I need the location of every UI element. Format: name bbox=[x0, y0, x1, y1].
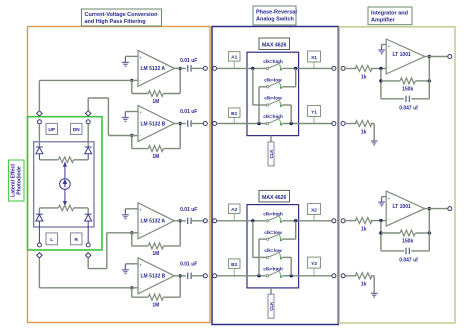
wire feedback to U4 output bbox=[163, 296, 180, 298]
resistor 1M (feedback of U1) bbox=[148, 91, 163, 97]
resistor 1M (feedback of U2) bbox=[148, 146, 163, 152]
op-amp U4 LM 5132 B bbox=[138, 258, 174, 294]
wire U1 feedback down bbox=[131, 80, 133, 93]
label box L bbox=[46, 233, 58, 245]
resistor 150k (feedback of U6) bbox=[400, 230, 415, 236]
svg-text:MAX 4626: MAX 4626 bbox=[262, 43, 287, 49]
node X output junction (upper) bbox=[294, 67, 297, 70]
svg-text:clk=high: clk=high bbox=[263, 59, 283, 65]
wire DN terminal to right diode bbox=[87, 124, 89, 147]
svg-text:clk=high: clk=high bbox=[263, 212, 283, 218]
svg-text:clk=low: clk=low bbox=[264, 230, 282, 236]
svg-text:0.01 uF: 0.01 uF bbox=[180, 109, 197, 115]
wiper arrow down bbox=[64, 189, 67, 205]
terminal circle UP (top-left) bbox=[37, 120, 41, 124]
photodiode D2 (right) bbox=[85, 147, 92, 160]
off-page terminal (right of boundary) bbox=[213, 219, 217, 223]
svg-text:0.01 uF: 0.01 uF bbox=[180, 261, 197, 267]
wire S2 output to X rail (upper) bbox=[282, 86, 296, 88]
svg-text:CLK: CLK bbox=[269, 149, 274, 159]
off-page terminal (right of navy/olive boundary) bbox=[341, 219, 345, 223]
wire + input to ground (U6) bbox=[382, 196, 387, 198]
wire U4 feedback down bbox=[131, 288, 133, 297]
svg-text:clk=low: clk=low bbox=[264, 248, 282, 254]
switch S2 clk=low (lower) bbox=[264, 230, 282, 241]
op-amp U3 LM 5132 A bbox=[138, 203, 174, 239]
wire output vertical (U5) bbox=[428, 57, 430, 99]
wiper arrow up bbox=[64, 163, 67, 179]
svg-text:+: + bbox=[388, 196, 391, 201]
switch S3 clk=low (upper) bbox=[264, 96, 282, 107]
wire U3 + input to ground bbox=[125, 208, 138, 210]
svg-text:DN: DN bbox=[73, 127, 80, 133]
connector diamond to R bbox=[86, 253, 91, 258]
node Y output junction (upper) bbox=[290, 122, 293, 125]
wire CLK stub (upper) bbox=[270, 136, 272, 142]
capacitor 0.01 uF (row 2) bbox=[187, 120, 189, 126]
node feedback right junction (U6) bbox=[428, 231, 431, 234]
svg-text:Current-Voltage Conversion: Current-Voltage Conversion bbox=[85, 12, 159, 18]
label box Y1 bbox=[308, 106, 321, 124]
photodiode model outline bbox=[34, 142, 94, 227]
svg-text:0.01 uF: 0.01 uF bbox=[180, 207, 197, 213]
terminal circle R (bottom-right) bbox=[86, 243, 90, 247]
node A input junction (upper) bbox=[251, 67, 254, 70]
svg-text:UP: UP bbox=[48, 127, 55, 133]
wire 1k to inverting input (U5) bbox=[371, 68, 386, 70]
wire input rail A (lower) bbox=[217, 220, 267, 222]
ground at U3 + input bbox=[122, 209, 129, 219]
svg-text:1k: 1k bbox=[361, 129, 367, 135]
wire B to S2 (lower) bbox=[258, 239, 260, 276]
photodiode enclosure box (green) bbox=[28, 117, 103, 250]
output terminal (U5) bbox=[448, 55, 452, 59]
svg-text:Amplifier: Amplifier bbox=[371, 18, 396, 24]
connector diamond to L bbox=[37, 253, 42, 258]
wire X terminal to 1k (U5) bbox=[345, 68, 356, 70]
top sheet resistor R-top bbox=[58, 157, 73, 163]
svg-text:LM 5132 B: LM 5132 B bbox=[141, 274, 166, 280]
wire DN diamond to U2 inverting input bbox=[87, 98, 89, 111]
section box: Integrator and Amplifier (olive) bbox=[339, 27, 455, 323]
off-page terminal (right of navy/olive boundary) bbox=[341, 122, 345, 126]
node U4 output junction bbox=[179, 274, 182, 277]
svg-text:clk=high: clk=high bbox=[263, 114, 283, 120]
wire cap branch (U6) bbox=[381, 250, 404, 252]
node output junction (U6) bbox=[428, 207, 431, 210]
connector diamond to UP bbox=[37, 111, 42, 116]
node Y output junction (lower) bbox=[290, 274, 293, 277]
svg-text:+: + bbox=[139, 207, 142, 212]
svg-text:X1: X1 bbox=[311, 55, 317, 61]
wire cap branch (U5) bbox=[381, 98, 404, 100]
svg-text:B1: B1 bbox=[231, 111, 237, 117]
wire A to S3 (lower) bbox=[252, 221, 254, 258]
switch S2 clk=low (upper) bbox=[264, 78, 282, 89]
off-page terminal (left of navy/olive boundary) bbox=[332, 122, 336, 126]
terminal circle DN (top-right) bbox=[86, 120, 90, 124]
node inverting input junction (U5) bbox=[379, 67, 382, 70]
svg-text:clk=high: clk=high bbox=[263, 267, 283, 273]
MAX 4626 switch outline (lower) bbox=[247, 205, 299, 288]
svg-text:clk=low: clk=low bbox=[264, 96, 282, 102]
bottom rail wire bbox=[39, 207, 58, 209]
photodiode D1 (left) bbox=[36, 147, 43, 160]
node U2 inverting input junction bbox=[130, 134, 133, 137]
resistor 1k (termination Y1) bbox=[355, 121, 372, 127]
node X output junction (lower) bbox=[294, 219, 297, 222]
svg-text:LM 5132 A: LM 5132 A bbox=[141, 219, 166, 225]
ground at U2 + input bbox=[122, 112, 129, 122]
wire U3 feedback down bbox=[131, 233, 133, 246]
svg-text:Phase-Reversal: Phase-Reversal bbox=[256, 10, 297, 16]
resistor 150k (feedback of U5) bbox=[400, 78, 415, 84]
wire U4 output to capacitor bbox=[174, 275, 186, 277]
svg-text:0.01 uF: 0.01 uF bbox=[180, 58, 197, 64]
capacitor 0.01 uF (row 4) bbox=[187, 273, 189, 279]
wire bottom-left rail to diode D3 bbox=[38, 208, 40, 214]
node U4 inverting input junction bbox=[130, 286, 133, 289]
svg-text:1M: 1M bbox=[152, 154, 159, 160]
wire capacitor to terminal bbox=[191, 67, 203, 69]
MAX 4626 label box (lower) bbox=[259, 190, 290, 202]
wire 1k to ground (Y1) bbox=[371, 123, 374, 125]
connector diamond to DN bbox=[86, 111, 91, 116]
resistor 1k (input of U6) bbox=[355, 218, 372, 224]
photodiode D3 (bottom-left) bbox=[36, 214, 43, 243]
label box UP bbox=[46, 123, 58, 134]
wire input rail B (lower) bbox=[217, 275, 267, 277]
section box: Current-Voltage Conversion (orange) bbox=[28, 27, 211, 323]
wire U4 + input to ground bbox=[125, 263, 138, 265]
wire B to S2 (upper) bbox=[258, 87, 260, 124]
svg-text:CLK: CLK bbox=[269, 301, 274, 311]
svg-text:Y1: Y1 bbox=[311, 110, 317, 116]
node output junction (U5) bbox=[428, 55, 431, 58]
wire feedback left vertical (U6) bbox=[380, 221, 382, 251]
wire S1 output rail X (lower) bbox=[282, 220, 332, 222]
wire to 150k (U6) bbox=[381, 232, 400, 234]
node feedback left junction (U5) bbox=[379, 79, 382, 82]
current source I1 bbox=[60, 179, 71, 190]
svg-text:0.047 uf: 0.047 uf bbox=[399, 258, 418, 264]
label box B1 bbox=[229, 108, 241, 124]
CLK connector box (upper) bbox=[268, 142, 274, 166]
wire U1 + input to ground bbox=[125, 55, 138, 57]
op-amp U1 LM 5132 A bbox=[138, 50, 174, 86]
wire S3 output to Y rail (upper) bbox=[282, 104, 291, 106]
wire to 150k (U5) bbox=[381, 80, 400, 82]
capacitor 0.01 uF (row 3) bbox=[187, 218, 189, 224]
wire Y terminal to 1k (Y2) bbox=[345, 275, 356, 277]
wire U2 output to capacitor bbox=[174, 123, 186, 125]
svg-text:X2: X2 bbox=[311, 208, 317, 214]
CLK connector box (lower) bbox=[268, 294, 274, 318]
wire R diamond to U3 inverting input bbox=[87, 258, 89, 269]
ground at + input (U6) bbox=[378, 197, 385, 206]
node A input junction (lower) bbox=[251, 219, 254, 222]
svg-text:+: + bbox=[139, 110, 142, 115]
svg-text:LM 5132 A: LM 5132 A bbox=[141, 66, 166, 72]
off-page terminal (left of boundary) bbox=[203, 66, 207, 70]
wire S4 output rail Y (upper) bbox=[282, 123, 332, 125]
op-amp U2 LM 5132 B bbox=[138, 106, 174, 142]
label box B2 bbox=[229, 259, 241, 276]
label box X1 bbox=[308, 51, 321, 68]
svg-text:+: + bbox=[139, 262, 142, 267]
wire S4 output rail Y (lower) bbox=[282, 275, 332, 277]
wire X terminal to 1k (U6) bbox=[345, 220, 356, 222]
svg-text:1M: 1M bbox=[152, 303, 159, 309]
wire feedback to U1 output bbox=[163, 93, 180, 95]
off-page terminal (right of navy/olive boundary) bbox=[341, 66, 345, 70]
label box A2 bbox=[229, 204, 241, 221]
svg-text:LM 5132 B: LM 5132 B bbox=[141, 121, 166, 127]
ground (termination Y2) bbox=[371, 293, 378, 297]
wire UP terminal to left diode bbox=[38, 124, 40, 147]
svg-text:L: L bbox=[50, 237, 53, 243]
label box A1 bbox=[229, 52, 241, 69]
svg-text:A2: A2 bbox=[231, 207, 237, 213]
off-page terminal (left of navy/olive boundary) bbox=[332, 66, 336, 70]
top rail wire bbox=[39, 159, 58, 161]
label box X2 bbox=[308, 204, 321, 221]
wire 150k to output vertical (U5) bbox=[416, 80, 430, 82]
switch S1 clk=high (lower) bbox=[263, 212, 283, 223]
switch S4 clk=high (lower) bbox=[263, 267, 283, 278]
wire bottom-right rail to diode D4 bbox=[87, 208, 89, 214]
off-page terminal (right of boundary) bbox=[213, 122, 217, 126]
resistor 1M (feedback of U4) bbox=[148, 294, 163, 300]
node U3 output junction bbox=[179, 219, 182, 222]
wire S1 output rail X (upper) bbox=[282, 67, 332, 69]
capacitor 0.047 uf (U6) bbox=[405, 248, 407, 254]
svg-text:+: + bbox=[139, 55, 142, 60]
wire feedback to U2 output bbox=[163, 148, 180, 150]
switch S4 clk=high (upper) bbox=[263, 114, 283, 125]
svg-text:150k: 150k bbox=[402, 239, 413, 245]
wire feedback left vertical (U5) bbox=[380, 69, 382, 99]
node B input junction (upper) bbox=[257, 122, 260, 125]
MAX 4626 label box (upper) bbox=[259, 38, 290, 50]
node feedback right junction (U5) bbox=[428, 79, 431, 82]
resistor 1k (input of U5) bbox=[355, 66, 372, 72]
switch S1 clk=high (upper) bbox=[263, 59, 283, 70]
ground at U1 + input bbox=[122, 56, 129, 66]
MAX 4626 switch outline (upper) bbox=[247, 52, 299, 135]
wire U2 feedback down bbox=[131, 136, 133, 149]
wire + input to ground (U5) bbox=[382, 44, 387, 46]
svg-text:and High Pass Filtering: and High Pass Filtering bbox=[85, 19, 146, 25]
off-page terminal (left of boundary) bbox=[203, 219, 207, 223]
resistor 1k (termination Y2) bbox=[355, 273, 372, 279]
section box: Phase-Reversal Analog Switch (navy) bbox=[212, 27, 338, 325]
svg-text:LT 1001: LT 1001 bbox=[393, 204, 411, 210]
off-page terminal (left of boundary) bbox=[203, 274, 207, 278]
svg-text:B2: B2 bbox=[231, 262, 237, 268]
ground at + input (U5) bbox=[378, 45, 385, 54]
off-page terminal (right of boundary) bbox=[213, 66, 217, 70]
svg-text:1M: 1M bbox=[152, 251, 159, 257]
off-page terminal (left of navy/olive boundary) bbox=[332, 274, 336, 278]
off-page terminal (left of navy/olive boundary) bbox=[332, 219, 336, 223]
node B input junction (lower) bbox=[257, 274, 260, 277]
switch S3 clk=low (lower) bbox=[264, 248, 282, 259]
svg-text:R: R bbox=[74, 237, 78, 243]
node U3 inverting input junction bbox=[130, 231, 133, 234]
op-amp U5 LT 1001 bbox=[386, 39, 425, 74]
svg-text:Integrator and: Integrator and bbox=[371, 11, 408, 17]
wire 1k to inverting input (U6) bbox=[371, 220, 386, 222]
capacitor 0.047 uf (U5) bbox=[405, 96, 407, 102]
off-page terminal (left of boundary) bbox=[203, 122, 207, 126]
svg-text:150k: 150k bbox=[402, 86, 413, 92]
wire UP diamond to U1 inverting input bbox=[38, 80, 40, 110]
off-page terminal (right of boundary) bbox=[213, 274, 217, 278]
node U1 inverting input junction bbox=[130, 79, 133, 82]
title box: Integrator and Amplifier bbox=[368, 7, 412, 25]
output terminal (U6) bbox=[448, 207, 452, 211]
svg-text:Y2: Y2 bbox=[311, 261, 317, 267]
node U2 output junction bbox=[179, 122, 182, 125]
terminal circle L (bottom-left) bbox=[37, 243, 41, 247]
svg-text:Photodiode: Photodiode bbox=[17, 166, 23, 195]
svg-text:1k: 1k bbox=[361, 282, 367, 288]
op-amp U6 LT 1001 bbox=[386, 191, 425, 226]
wire U2 + input to ground bbox=[125, 111, 138, 113]
wire capacitor to terminal bbox=[191, 275, 203, 277]
node inverting input junction (U6) bbox=[379, 219, 382, 222]
label box: Lateral Effect Photodiode bbox=[8, 160, 24, 201]
node U1 output junction bbox=[179, 67, 182, 70]
wire output vertical (U6) bbox=[428, 209, 430, 251]
off-page terminal (right of navy/olive boundary) bbox=[341, 274, 345, 278]
svg-text:0.047 uf: 0.047 uf bbox=[399, 106, 418, 112]
label box R bbox=[71, 233, 83, 245]
wire 150k to output vertical (U6) bbox=[416, 232, 430, 234]
wire input rail A (upper) bbox=[217, 67, 267, 69]
wire U3 output to capacitor bbox=[174, 220, 186, 222]
wire S3 output to Y rail (lower) bbox=[282, 256, 291, 258]
title box: Current-Voltage Conversion and High Pass Filtering bbox=[82, 9, 162, 26]
wire 1k to ground (Y2) bbox=[371, 275, 374, 277]
wire capacitor to terminal bbox=[191, 123, 203, 125]
svg-text:1k: 1k bbox=[361, 74, 367, 80]
svg-text:Analog Switch: Analog Switch bbox=[256, 17, 295, 23]
label box DN bbox=[71, 123, 83, 134]
wire output (U5) bbox=[425, 56, 448, 58]
svg-text:MAX 4626: MAX 4626 bbox=[262, 195, 287, 201]
wire feedback to U3 output bbox=[163, 245, 180, 247]
photodiode D4 (bottom-right) bbox=[85, 214, 92, 243]
capacitor 0.01 uF (row 1) bbox=[187, 65, 189, 71]
ground at U4 + input bbox=[122, 264, 129, 274]
wire U1 input stub bbox=[132, 79, 138, 81]
node feedback left junction (U6) bbox=[379, 231, 382, 234]
svg-text:A1: A1 bbox=[231, 55, 237, 61]
wire input rail B (upper) bbox=[217, 123, 267, 125]
svg-text:1M: 1M bbox=[152, 99, 159, 105]
wire capacitor to terminal bbox=[191, 220, 203, 222]
wire U1 output to capacitor bbox=[174, 67, 186, 69]
wire CLK stub (lower) bbox=[270, 288, 272, 294]
resistor 1M (feedback of U3) bbox=[148, 243, 163, 249]
wire L diamond to U4 inverting input bbox=[38, 258, 40, 288]
title box: Phase-Reversal Analog Switch bbox=[253, 6, 297, 25]
wire Y terminal to 1k (Y1) bbox=[345, 123, 356, 125]
wire output (U6) bbox=[425, 208, 448, 210]
svg-text:1k: 1k bbox=[361, 226, 367, 232]
wire S2 output to X rail (lower) bbox=[282, 238, 296, 240]
bottom sheet resistor R-bot bbox=[58, 205, 73, 211]
svg-text:+: + bbox=[388, 44, 391, 49]
label box Y2 bbox=[308, 257, 321, 276]
ground (termination Y1) bbox=[371, 141, 378, 145]
svg-text:clk=low: clk=low bbox=[264, 78, 282, 84]
wire A to S3 (upper) bbox=[252, 68, 254, 105]
svg-text:LT 1001: LT 1001 bbox=[393, 52, 411, 58]
